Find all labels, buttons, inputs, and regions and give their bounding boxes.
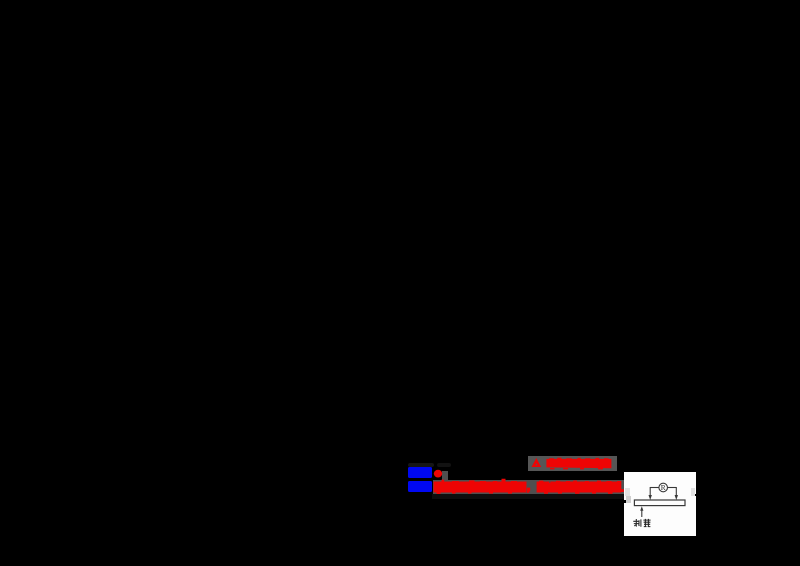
trailing period blob xyxy=(621,489,624,492)
white diagram box xyxy=(624,472,696,536)
stimulus arrow shaft xyxy=(641,510,643,518)
label ideograph ji (stimulus char 2) xyxy=(643,519,650,527)
gray highlight band behind red line xyxy=(433,480,624,494)
answer bar bottom bumps xyxy=(550,468,555,469)
wire right vertical xyxy=(675,487,677,496)
small gray patch right of red dot xyxy=(442,471,448,480)
red line segment 1 xyxy=(434,479,527,493)
galvanometer R circle xyxy=(659,483,668,492)
blue bar 2 xyxy=(408,481,432,492)
electrode arrowhead right xyxy=(675,495,678,500)
letter A glyph blob in answer box xyxy=(532,458,542,467)
stimulus arrowhead xyxy=(640,506,643,511)
diagram svg xyxy=(624,472,696,536)
label ideograph ci (stimulus char 1) xyxy=(633,519,641,527)
svg-text:R: R xyxy=(661,484,666,492)
red line segment 2 xyxy=(537,481,622,493)
selection black notch left xyxy=(624,500,626,503)
faint dark text shadow row under red line xyxy=(432,494,628,499)
answer box A (gray highlight) xyxy=(528,456,617,471)
electrode arrowhead left xyxy=(649,495,652,500)
seg1 bottom dips xyxy=(437,492,441,494)
nerve fiber rectangle xyxy=(634,500,685,506)
answer box red text bar xyxy=(546,458,611,468)
wire right horizontal xyxy=(668,487,677,489)
selection handle right xyxy=(691,488,695,496)
faint smudge above blue bars xyxy=(408,463,434,468)
wire left vertical xyxy=(649,487,651,496)
selection handle left upper xyxy=(625,488,630,496)
seg2 bottom dips xyxy=(544,492,548,493)
red dot bullet xyxy=(434,470,442,478)
selection black dot right xyxy=(695,494,698,496)
blue bar 1 xyxy=(408,467,432,478)
wire left horizontal xyxy=(650,487,659,489)
comma after segment 1 xyxy=(527,488,530,493)
selection handle left lower xyxy=(626,496,631,503)
